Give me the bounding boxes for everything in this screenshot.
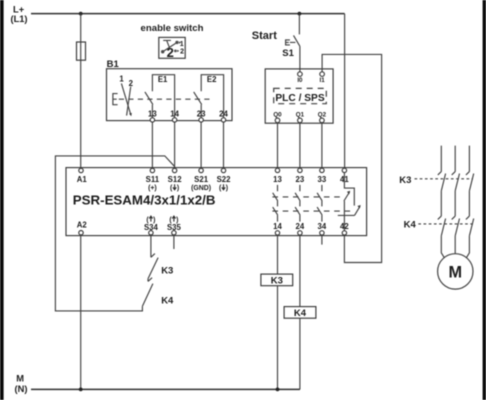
B1 terminal 23 — [197, 110, 206, 119]
svg-text:K4: K4 — [294, 308, 307, 319]
B1 terminal 13 — [148, 110, 157, 119]
relay terminal 23 — [296, 168, 305, 184]
contactor K4 main contacts — [404, 216, 474, 236]
svg-text:34: 34 — [318, 222, 327, 231]
svg-text:2: 2 — [180, 49, 184, 56]
relay terminal 13 — [273, 168, 282, 184]
safety relay box — [66, 168, 367, 236]
PLC output Q2 — [318, 111, 327, 122]
wire B1-13 to S11 — [151, 122, 153, 168]
relay terminal S34 — [144, 216, 159, 235]
svg-text:33: 33 — [318, 175, 327, 184]
relay type label — [73, 193, 216, 208]
motor M — [438, 254, 473, 289]
wire K3 coil to M rail — [277, 286, 279, 390]
wire A2 to M rail — [80, 235, 82, 389]
contactor coil K3 — [261, 274, 293, 286]
PLC box — [265, 69, 333, 123]
relay contact 41-42 NC — [338, 173, 361, 231]
wire motor leads — [441, 236, 469, 260]
svg-text:14: 14 — [273, 222, 282, 231]
relay terminal A2 — [77, 220, 88, 235]
relay contact 33-34 — [317, 185, 322, 222]
relay terminal 14 — [273, 222, 282, 235]
wire A1 drop — [80, 14, 82, 169]
enable switch icon — [159, 37, 185, 60]
relay terminal S35 — [167, 216, 182, 235]
node L+ (L1) — [10, 4, 27, 23]
svg-text:enable switch: enable switch — [141, 23, 204, 34]
relay contact 13-14 — [273, 185, 278, 222]
wire Q0 to 13 — [277, 123, 279, 168]
svg-text:13: 13 — [273, 175, 282, 184]
svg-text:2: 2 — [167, 45, 174, 60]
svg-text:PSR-ESAM4/3x1/1x2/B: PSR-ESAM4/3x1/1x2/B — [73, 193, 216, 208]
svg-text:I0: I0 — [297, 77, 303, 84]
relay terminal 24 — [296, 222, 305, 235]
svg-text:1: 1 — [180, 41, 184, 48]
svg-text:A2: A2 — [77, 220, 88, 229]
relay terminal S11 — [146, 168, 160, 192]
aux contact K3 — [148, 235, 173, 279]
wire B1-23 to S21 — [200, 122, 202, 168]
wire S12 to K4 feedback — [55, 156, 174, 311]
wire phase lines top — [441, 146, 469, 172]
wire Q1 to 23 — [299, 123, 301, 168]
wire L+ to 41 — [344, 14, 346, 169]
pushbutton B1 label — [107, 59, 120, 70]
svg-text:): ) — [177, 185, 179, 192]
svg-text:1: 1 — [119, 75, 124, 84]
relay terminal A1 — [77, 168, 88, 184]
B1 terminal circles — [150, 118, 226, 122]
B1 mechanical link — [119, 98, 214, 100]
start button S1 — [252, 14, 300, 72]
contactor K3 main contacts — [399, 172, 473, 191]
relay terminal S12 — [168, 168, 183, 192]
svg-text:S12: S12 — [168, 175, 183, 184]
svg-text:24: 24 — [296, 222, 305, 231]
svg-text:Q2: Q2 — [318, 111, 327, 118]
PLC input I0 — [297, 72, 303, 84]
B1 position line 2 — [127, 79, 134, 116]
relay terminal 41 — [340, 168, 349, 184]
PLC output Q0 — [273, 111, 282, 122]
svg-text:I1: I1 — [320, 77, 326, 84]
svg-text:S21: S21 — [194, 175, 209, 184]
svg-text:PLC / SPS: PLC / SPS — [275, 93, 324, 104]
svg-text:(GND): (GND) — [191, 185, 211, 192]
contactor coil K4 — [284, 307, 316, 319]
junction K3 on M rail — [276, 388, 280, 392]
svg-text:42: 42 — [340, 222, 349, 231]
aux contact K4 — [142, 278, 174, 307]
svg-text:S11: S11 — [146, 175, 160, 184]
B1 terminal 14 — [170, 110, 179, 119]
relay terminal S21 — [191, 168, 211, 192]
relay terminal 42 — [340, 222, 349, 235]
wire Q2 to 33 — [321, 123, 323, 168]
wire 24 to K4 coil — [299, 235, 301, 307]
enable switch label — [141, 23, 204, 34]
svg-text:2: 2 — [129, 79, 134, 88]
B1 contact E1 — [145, 75, 175, 118]
stub S35 — [173, 235, 175, 249]
relay mech link row1 — [272, 196, 341, 198]
B1 contact E2 — [194, 75, 224, 118]
PLC input I1 — [320, 72, 326, 84]
junction S1 tap — [298, 12, 302, 16]
svg-text:E2: E2 — [207, 75, 217, 84]
svg-text:K3: K3 — [399, 175, 411, 186]
wire M rail — [31, 388, 300, 390]
svg-text:Start: Start — [252, 30, 277, 42]
svg-text:): ) — [226, 185, 228, 192]
svg-text:K3: K3 — [271, 275, 283, 286]
relay terminal 33 — [318, 168, 327, 184]
svg-text:A1: A1 — [77, 175, 88, 184]
PLC output Q1 — [296, 111, 305, 122]
svg-text:M: M — [449, 263, 463, 281]
wire L+ rail — [31, 13, 345, 15]
svg-text:K4: K4 — [404, 220, 417, 231]
PLC label PLC / SPS — [274, 88, 327, 104]
fuse F1 — [77, 42, 86, 60]
svg-text:K4: K4 — [161, 296, 174, 307]
B1 actuator — [113, 94, 118, 105]
svg-text:S22: S22 — [217, 175, 232, 184]
wire K4 coil to M rail — [299, 318, 301, 389]
svg-text:(L1): (L1) — [10, 14, 27, 24]
relay mech link row2 — [272, 210, 352, 212]
svg-text:K3: K3 — [161, 266, 173, 277]
svg-text:Q1: Q1 — [296, 111, 305, 118]
svg-text:E1: E1 — [158, 75, 168, 84]
B1 position line 1 — [119, 75, 131, 117]
svg-text:Q0: Q0 — [273, 111, 282, 118]
relay contact 23-24 — [295, 185, 300, 222]
relay terminal S22 — [217, 168, 232, 192]
svg-text:23: 23 — [296, 175, 305, 184]
wire B1-14 to S12 — [174, 122, 176, 168]
node M (N) — [15, 373, 28, 394]
wire 42 to I1 feedback — [322, 54, 382, 262]
stub 34 — [321, 235, 323, 244]
svg-text:(N): (N) — [15, 384, 28, 394]
B1 terminal 24 — [219, 110, 228, 119]
svg-text:S1: S1 — [282, 48, 294, 59]
relay terminal 34 — [318, 222, 327, 235]
enabling switch B1 box — [107, 69, 233, 121]
wire 14 to K3 coil — [277, 235, 279, 274]
junction A1 tap — [79, 12, 83, 16]
svg-text:M: M — [16, 373, 24, 383]
wire B1-24 to S22 — [223, 122, 225, 168]
wire phase lines middle — [441, 191, 469, 216]
junction A2 on M rail — [79, 388, 83, 392]
svg-text:(+): (+) — [148, 185, 157, 192]
